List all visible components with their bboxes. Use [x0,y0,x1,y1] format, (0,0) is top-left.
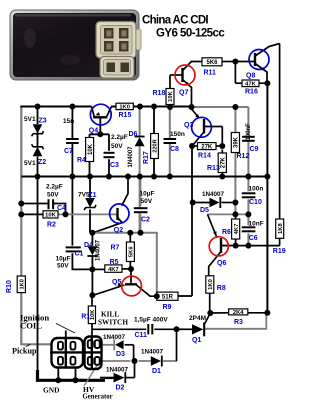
svg-text:R6: R6 [222,229,231,236]
svg-text:150n: 150n [170,131,185,138]
svg-text:Z2: Z2 [38,159,46,166]
svg-text:R8: R8 [217,285,226,292]
svg-text:1N4007: 1N4007 [103,334,126,341]
svg-text:50V: 50V [57,263,69,270]
svg-text:2.2µF: 2.2µF [46,184,63,191]
svg-text:D4: D4 [84,242,93,249]
svg-text:10K: 10K [90,310,96,320]
svg-text:5K6: 5K6 [206,60,218,66]
svg-text:R18: R18 [153,90,166,97]
svg-text:C4: C4 [57,205,66,212]
svg-text:C1: C1 [75,251,84,258]
svg-text:D5: D5 [200,207,209,214]
svg-text:10K: 10K [45,213,56,219]
svg-text:China AC CDI: China AC CDI [142,15,208,27]
svg-text:2.2µF: 2.2µF [111,134,128,141]
svg-text:D3: D3 [116,351,125,358]
svg-text:R5: R5 [110,259,119,266]
svg-text:R19: R19 [273,248,286,255]
svg-text:47K: 47K [245,82,256,88]
svg-text:D2: D2 [116,385,125,392]
svg-text:27K: 27K [201,144,213,150]
svg-text:15n: 15n [63,118,74,125]
svg-text:D1: D1 [152,368,161,375]
svg-text:1K0: 1K0 [208,279,214,290]
svg-text:10µF: 10µF [140,191,155,198]
svg-text:100n: 100n [249,186,264,193]
svg-text:4K7: 4K7 [108,267,119,273]
svg-text:R14: R14 [198,153,211,160]
svg-text:Z3: Z3 [39,118,47,125]
svg-text:R13: R13 [207,165,220,172]
svg-text:4K7: 4K7 [234,224,240,235]
svg-text:Generator: Generator [83,394,113,400]
svg-text:5V1: 5V1 [24,160,36,167]
svg-text:1N4007: 1N4007 [106,367,129,374]
svg-text:7V5: 7V5 [78,191,90,198]
svg-text:GY6 50-125cc: GY6 50-125cc [156,28,225,40]
svg-text:R17: R17 [143,151,150,164]
svg-text:C3: C3 [110,162,119,169]
svg-text:1N4007: 1N4007 [96,239,102,261]
svg-text:C8: C8 [170,146,179,153]
svg-text:Pickup: Pickup [12,347,37,356]
svg-text:R12: R12 [237,153,250,160]
svg-text:2P4M: 2P4M [189,315,206,322]
svg-text:50V: 50V [141,198,153,205]
svg-text:C7: C7 [64,148,73,155]
svg-text:Q6: Q6 [217,260,226,267]
svg-text:1K8: 1K8 [278,223,284,234]
svg-text:R10: R10 [6,280,13,293]
svg-text:R3: R3 [234,319,243,326]
svg-text:Q1: Q1 [192,337,201,344]
svg-text:R2: R2 [47,222,56,229]
svg-text:R1: R1 [81,314,90,321]
svg-text:5V1: 5V1 [24,116,36,123]
svg-text:C6: C6 [249,235,258,242]
svg-text:10K: 10K [88,143,94,155]
svg-text:Q4: Q4 [89,127,98,134]
svg-text:2K4: 2K4 [233,310,244,316]
svg-text:1N4007: 1N4007 [202,191,225,198]
svg-text:Q7: Q7 [179,90,188,97]
svg-text:10µF: 10µF [56,255,71,262]
svg-text:39K: 39K [234,136,240,148]
svg-text:R11: R11 [204,70,217,77]
svg-text:R9: R9 [163,304,172,311]
svg-text:1N4007: 1N4007 [128,146,134,168]
svg-text:R7: R7 [111,245,120,252]
svg-text:Q8: Q8 [246,73,255,80]
svg-text:SWITCH: SWITCH [98,318,128,327]
svg-text:1,5µF 400V: 1,5µF 400V [134,316,168,323]
svg-text:R16: R16 [245,89,258,96]
svg-text:C11: C11 [135,332,148,339]
svg-text:5K6: 5K6 [129,246,135,257]
svg-text:1N4007: 1N4007 [141,349,164,356]
svg-text:D6: D6 [129,131,138,138]
svg-text:Q3: Q3 [184,122,193,129]
svg-text:C10: C10 [249,199,262,206]
svg-text:Q2: Q2 [114,227,123,234]
svg-text:R15: R15 [119,112,132,119]
svg-text:27K: 27K [221,157,227,169]
svg-text:1K0: 1K0 [119,105,130,111]
svg-text:10K: 10K [168,90,174,101]
svg-text:GND: GND [43,385,59,394]
svg-text:Q5: Q5 [112,279,121,286]
svg-text:1K0: 1K0 [20,279,26,289]
svg-text:51R: 51R [162,294,174,300]
svg-text:50V: 50V [47,192,59,199]
svg-text:C9: C9 [250,146,259,153]
svg-text:100nF: 100nF [246,123,252,141]
svg-text:220R: 220R [153,139,159,152]
svg-text:C2: C2 [141,216,150,223]
svg-text:COIL: COIL [20,321,42,331]
svg-text:10nF: 10nF [249,220,264,227]
svg-text:R4: R4 [77,157,86,164]
svg-text:50V: 50V [111,143,123,150]
